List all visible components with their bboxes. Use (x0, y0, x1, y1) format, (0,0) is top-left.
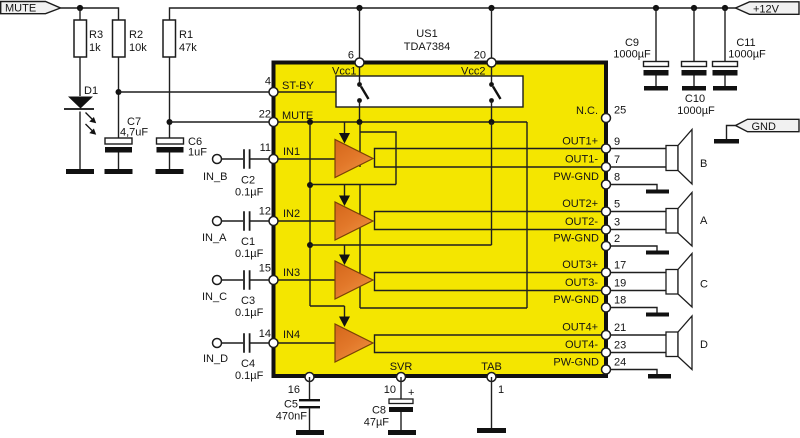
svg-text:D1: D1 (84, 85, 98, 97)
wire IN2 to amp2 (273, 220, 336, 222)
svg-text:1000µF: 1000µF (728, 49, 766, 61)
wire pin9 to speaker B (610, 148, 666, 150)
wire pin17 to speaker C (610, 272, 666, 274)
node rail/C11 (722, 5, 728, 11)
input terminal IN_D (203, 339, 228, 366)
mute arrow into amp1 (339, 122, 350, 144)
svg-text:C11: C11 (736, 37, 755, 49)
wire pin24 to ground (610, 370, 657, 375)
wire vcc2 vertical (491, 122, 493, 245)
svg-text:10: 10 (384, 384, 396, 396)
wire mute bus horizontal (273, 121, 527, 123)
svg-text:0.1µF: 0.1µF (235, 187, 264, 199)
svg-text:24: 24 (614, 357, 626, 369)
wire mute rail (61, 8, 119, 20)
svg-text:IN_B: IN_B (203, 171, 227, 183)
wire C4 to pin 14 (251, 342, 274, 344)
capacitor C7 (105, 116, 148, 153)
pin 10 (397, 373, 406, 382)
svg-text:PW-GND: PW-GND (553, 294, 599, 306)
input terminal IN_A (202, 217, 227, 245)
wire pin8 to ground (610, 185, 657, 190)
svg-text:GND: GND (752, 121, 777, 133)
svg-text:A: A (700, 215, 708, 227)
svg-text:TAB: TAB (481, 361, 502, 373)
svg-text:OUT3-: OUT3- (565, 277, 598, 289)
wire IN4 to amp4 (273, 342, 336, 344)
svg-text:15: 15 (259, 263, 271, 275)
pin 5 (602, 207, 611, 216)
wire C6 to ground (169, 153, 171, 170)
svg-text:0.1µF: 0.1µF (235, 370, 264, 382)
pin 14 (269, 339, 278, 348)
ground below C7 (105, 169, 133, 174)
svg-text:OUT4+: OUT4+ (562, 322, 598, 334)
pin 16 (305, 373, 314, 382)
svg-text:Vcc2: Vcc2 (461, 66, 485, 78)
svg-text:47k: 47k (179, 42, 197, 54)
svg-text:PW-GND: PW-GND (553, 233, 599, 245)
svg-text:R3: R3 (89, 29, 103, 41)
wire C5 to ground (309, 409, 311, 431)
svg-text:OUT1+: OUT1+ (562, 136, 598, 148)
op-amp A3 (335, 261, 373, 299)
svg-text:MUTE: MUTE (282, 110, 313, 122)
svg-text:C1: C1 (241, 236, 255, 248)
wire TAB to ground (491, 377, 493, 428)
wire C8 to ground (400, 412, 402, 430)
svg-text:14: 14 (259, 328, 271, 340)
wire pin5 to speaker A (610, 211, 666, 213)
capacitor C5 (276, 399, 320, 423)
wire pin3 to speaker A (610, 229, 666, 231)
pin 6 (355, 58, 364, 67)
node mute bus 3 (489, 119, 495, 125)
wire IN_A to C1 (222, 220, 244, 222)
pin 23 (602, 348, 611, 357)
svg-text:4,7uF: 4,7uF (120, 127, 148, 139)
svg-text:22: 22 (259, 109, 271, 121)
op-amp A2 (335, 202, 373, 240)
svg-text:PW-GND: PW-GND (553, 171, 599, 183)
pin 1 (487, 373, 496, 382)
node mute bus 2 (357, 119, 363, 125)
svg-text:19: 19 (614, 278, 626, 290)
wire D1 to ground (79, 112, 81, 170)
wire spine under amp1 (359, 122, 361, 167)
pin 22 (269, 118, 278, 127)
ground below TAB (477, 428, 506, 433)
resistor R3 (74, 20, 103, 57)
svg-text:+12V: +12V (753, 3, 780, 15)
svg-text:1000µF: 1000µF (677, 105, 715, 117)
wire rail to pin 20 (491, 8, 493, 62)
wire bus right vertical (526, 122, 528, 308)
node rail/Vcc1 (356, 5, 362, 11)
speaker B (666, 130, 707, 185)
svg-text:10k: 10k (129, 42, 147, 54)
wire R3 to D1 (79, 57, 81, 96)
ground below C9 (644, 86, 668, 91)
svg-text:5: 5 (614, 199, 620, 211)
wire amp2 row horizontal (310, 184, 396, 186)
input terminal IN_B (203, 155, 227, 184)
wire IN3 to amp3 (273, 279, 336, 281)
pin 7 (602, 163, 611, 172)
wire spine row4 horizontal (360, 307, 527, 309)
wire R2 to C7 (118, 57, 120, 138)
svg-text:6: 6 (348, 50, 354, 62)
resistor R2 (113, 20, 148, 57)
LED D1 (64, 85, 98, 135)
svg-text:21: 21 (614, 322, 626, 334)
svg-text:R2: R2 (129, 29, 143, 41)
wire IN_B to C2 (222, 158, 244, 160)
ground speaker D (648, 374, 671, 379)
input terminal IN_C (202, 276, 227, 304)
svg-text:C3: C3 (241, 295, 255, 307)
ground for GND tag (714, 139, 739, 144)
svg-text:C10: C10 (685, 93, 705, 105)
svg-text:Vcc1: Vcc1 (332, 66, 356, 78)
capacitor C11 (713, 8, 767, 86)
svg-text:12: 12 (259, 206, 271, 218)
svg-text:IN3: IN3 (283, 267, 300, 279)
pin 25 (602, 114, 611, 123)
node chain amp2 (307, 182, 313, 188)
wire pin23 to speaker D (610, 352, 666, 354)
ground below C8 (388, 430, 416, 435)
svg-text:IN4: IN4 (283, 329, 300, 341)
pin 15 (269, 276, 278, 285)
capacitor C2 (235, 149, 264, 198)
node rail/Vcc2 (488, 5, 494, 11)
svg-text:C9: C9 (625, 37, 639, 49)
MUTE input tag (1, 2, 61, 15)
wire vcc1 detour (360, 132, 396, 185)
wire ST-BY to pin 4 (119, 91, 274, 93)
ground below C10 (682, 86, 706, 91)
svg-text:1uF: 1uF (188, 147, 207, 159)
wire GND tag to ground (727, 126, 736, 140)
wire amp2 fork (375, 212, 607, 230)
wire C3 to pin 15 (251, 279, 274, 281)
ground speaker C (646, 313, 669, 317)
svg-text:2: 2 (614, 233, 620, 245)
capacitor C10 (677, 8, 715, 117)
op-amp A4 (335, 324, 373, 362)
pin 3 (602, 225, 611, 234)
pin 11 (269, 155, 278, 164)
pin 4 (269, 88, 278, 97)
svg-text:16: 16 (288, 384, 300, 396)
wire rail to pin 6 (359, 8, 361, 62)
white switch box (336, 76, 523, 107)
speaker C (666, 254, 708, 308)
switch SW1 (Vcc1) (357, 62, 368, 122)
wire pin10 to C8 (400, 377, 402, 399)
ground below C5 (296, 430, 324, 435)
wire amp3 row horizontal (310, 244, 492, 246)
wire C2 to pin 11 (251, 158, 274, 160)
svg-text:17: 17 (614, 260, 626, 272)
wire R1 to C6 (169, 57, 171, 138)
ground below C6 (156, 169, 184, 174)
svg-text:0.1µF: 0.1µF (235, 307, 264, 319)
mute arrow into amp2 (339, 185, 350, 206)
svg-text:1: 1 (498, 384, 504, 396)
op-amp A1 (335, 140, 373, 178)
svg-text:7: 7 (614, 154, 620, 166)
wire C1 to pin 12 (251, 220, 274, 222)
svg-text:C: C (700, 279, 708, 291)
svg-text:20: 20 (474, 50, 486, 62)
svg-text:11: 11 (260, 142, 271, 154)
pin 24 (602, 365, 611, 374)
svg-text:OUT4-: OUT4- (565, 339, 598, 351)
svg-text:9: 9 (614, 136, 620, 148)
svg-text:R1: R1 (179, 29, 193, 41)
wire pin7 to speaker B (610, 166, 666, 168)
wire IN_D to C4 (222, 342, 244, 344)
svg-text:IN2: IN2 (283, 208, 300, 220)
svg-text:C4: C4 (241, 358, 255, 370)
GND tag (736, 119, 800, 133)
node mute bus 1 (307, 119, 313, 125)
capacitor C4 (235, 333, 264, 382)
capacitor C9 (613, 8, 668, 86)
svg-text:US1: US1 (416, 28, 437, 40)
wire mute to pin 22 (170, 121, 274, 123)
capacitor C6 (157, 136, 208, 159)
svg-text:OUT1-: OUT1- (565, 154, 598, 166)
pin 20 (487, 58, 496, 67)
svg-text:PW-GND: PW-GND (553, 357, 599, 369)
svg-text:D: D (700, 339, 708, 351)
wire IN_C to C3 (222, 279, 244, 281)
svg-text:N.C.: N.C. (576, 105, 598, 117)
svg-text:0.1µF: 0.1µF (235, 248, 264, 260)
svg-text:3: 3 (614, 217, 620, 229)
svg-text:25: 25 (614, 105, 626, 117)
svg-text:OUT2-: OUT2- (565, 216, 598, 228)
capacitor C8 + polarity (364, 387, 415, 429)
svg-text:IN_C: IN_C (202, 291, 227, 303)
svg-text:OUT3+: OUT3+ (562, 259, 598, 271)
wire IN1 to amp1 (273, 158, 336, 160)
svg-text:OUT2+: OUT2+ (562, 198, 598, 210)
wire pin19 to speaker C (610, 290, 666, 292)
pin 2 (602, 242, 611, 251)
svg-text:C2: C2 (241, 175, 255, 187)
wire pin2 to ground (610, 246, 657, 251)
svg-text:+: + (408, 387, 414, 399)
wire R3 top (79, 8, 81, 20)
wire R1 to +12V rail (170, 8, 736, 20)
svg-text:18: 18 (614, 295, 626, 307)
node chain amp3 (307, 242, 313, 248)
wire pin18 to ground (610, 308, 657, 313)
speaker A (666, 193, 708, 247)
wire chain row4 branch (310, 305, 345, 307)
node R2/ST-BY junction (116, 89, 122, 95)
wire amp4 fork (375, 335, 607, 353)
wire C7 to ground (118, 153, 120, 170)
svg-text:1000µF: 1000µF (613, 49, 651, 61)
ground speaker A (646, 251, 669, 255)
node mute/R3 junction (77, 5, 83, 11)
pin 21 (602, 331, 611, 340)
wire amp3 fork (375, 273, 607, 291)
svg-text:8: 8 (614, 172, 620, 184)
wire pin16 to C5 (309, 377, 311, 399)
speaker D (666, 316, 708, 370)
svg-text:SVR: SVR (390, 361, 413, 373)
svg-text:470nF: 470nF (276, 411, 307, 423)
svg-text:IN_D: IN_D (203, 353, 228, 365)
svg-text:ST-BY: ST-BY (282, 80, 314, 92)
wire amp1 fork (375, 149, 607, 168)
svg-text:IN_A: IN_A (202, 232, 227, 244)
pin 9 (602, 144, 611, 153)
svg-text:23: 23 (614, 340, 626, 352)
ground below C11 (713, 86, 737, 91)
capacitor C1 (235, 211, 264, 260)
pin 19 (602, 286, 611, 295)
wire pin21 to speaker D (610, 334, 666, 336)
svg-text:1k: 1k (89, 42, 101, 54)
ground speaker B (646, 190, 669, 194)
svg-text:MUTE: MUTE (5, 2, 36, 14)
IC U1 body TDA7384 (274, 63, 607, 377)
node rail/C9 (653, 5, 659, 11)
pin 8 (602, 180, 611, 189)
+12V tag (736, 2, 800, 16)
svg-text:TDA7384: TDA7384 (404, 41, 450, 53)
resistor R1 (163, 20, 197, 57)
pin 18 (602, 303, 611, 312)
wire spine under amp2 amp3 (359, 185, 361, 309)
mute arrow into amp4 (339, 306, 350, 327)
svg-text:47µF: 47µF (364, 417, 390, 429)
svg-text:C5: C5 (284, 399, 298, 411)
mute arrow into amp3 (339, 245, 350, 265)
capacitor C3 (235, 270, 264, 319)
svg-text:B: B (700, 158, 707, 170)
pin 12 (269, 217, 278, 226)
wire ST-BY pin to switch box (273, 91, 336, 93)
wire bus left vertical chain (309, 122, 311, 306)
svg-text:IN1: IN1 (283, 146, 300, 158)
node rail/C10 (691, 5, 697, 11)
node R1/MUTE-pin junction (167, 119, 173, 125)
switch SW2 (Vcc2) (489, 62, 500, 122)
ground below D1 (66, 169, 94, 174)
svg-text:C8: C8 (372, 405, 386, 417)
pin 17 (602, 268, 611, 277)
svg-text:4: 4 (265, 76, 271, 88)
